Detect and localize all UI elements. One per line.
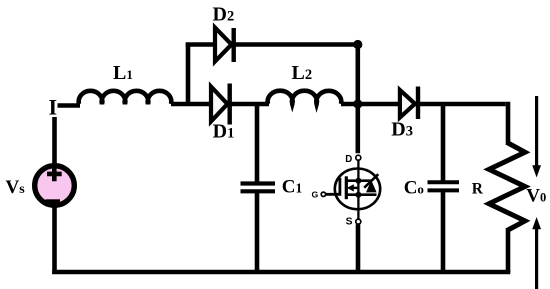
- wire MOSFET source to bottom rail: [356, 224, 361, 272]
- mosfet junction dot bottom: [355, 192, 361, 198]
- wire D2 cathode to top node: [234, 42, 358, 47]
- mosfet drain internal lead: [357, 160, 359, 195]
- mosfet gate electrode: [326, 178, 340, 195]
- svg-text:L2: L2: [292, 62, 313, 84]
- wire Co branch upper: [441, 104, 446, 181]
- wire L1 to D1: [171, 102, 211, 107]
- wire R to bottom rail: [506, 228, 511, 272]
- svg-text:G: G: [312, 190, 319, 200]
- wire left branch upper: [52, 117, 57, 165]
- mosfet body arrow: [347, 184, 359, 191]
- svg-text:C1: C1: [282, 177, 303, 198]
- diode D3: [400, 87, 418, 120]
- V0 polarity down arrow: [532, 96, 541, 178]
- node dot top: [353, 40, 362, 49]
- wire tee up to D2 branch: [186, 43, 191, 107]
- svg-text:D2: D2: [213, 4, 235, 26]
- mosfet body diode: [364, 174, 378, 192]
- wire D2 branch left segment: [186, 42, 215, 47]
- mosfet Q1 body circle: [335, 169, 380, 210]
- diode D1: [211, 84, 230, 125]
- S pin terminal circle: [356, 219, 361, 224]
- capacitor Co: [428, 182, 460, 190]
- wire top node down to main node: [355, 45, 360, 105]
- wire C1 branch lower: [255, 193, 260, 273]
- capacitor C1: [241, 184, 276, 192]
- wire Vs to bottom rail: [52, 206, 57, 274]
- svg-text:L1: L1: [113, 62, 133, 84]
- svg-text:I: I: [49, 94, 58, 119]
- svg-text:V0: V0: [526, 185, 546, 206]
- wire corner down to R: [506, 102, 511, 145]
- mosfet junction dot top: [355, 178, 361, 184]
- resistor R: [489, 143, 525, 230]
- svg-text:Co: Co: [404, 177, 424, 198]
- svg-text:D3: D3: [391, 119, 413, 141]
- mosfet channel bar: [345, 176, 348, 199]
- mosfet top lead: [346, 179, 371, 182]
- inductor L2: [268, 91, 342, 104]
- inductor L1: [79, 91, 172, 104]
- wire L2 to D3: [341, 102, 400, 107]
- svg-text:S: S: [346, 216, 353, 227]
- svg-text:R: R: [472, 181, 484, 198]
- G pin terminal circle: [321, 192, 325, 196]
- wire C1 branch upper: [255, 104, 260, 182]
- mosfet source internal lead: [357, 195, 359, 220]
- wire Co branch lower: [441, 192, 446, 273]
- wire MOSFET drain from main node: [355, 104, 360, 153]
- bottom rail wire: [52, 270, 510, 275]
- wire D3 to output corner: [419, 102, 506, 107]
- svg-text:Vs: Vs: [6, 177, 26, 198]
- node dot main: [353, 99, 362, 108]
- mosfet bottom lead: [346, 193, 376, 196]
- wire D1 to L2: [230, 102, 269, 107]
- diode D2: [215, 28, 234, 63]
- wire input stub: [58, 103, 81, 107]
- V0 polarity up arrow: [532, 217, 541, 289]
- D pin terminal circle: [356, 155, 361, 160]
- svg-text:D: D: [345, 154, 352, 165]
- voltage source Vs: [35, 166, 75, 206]
